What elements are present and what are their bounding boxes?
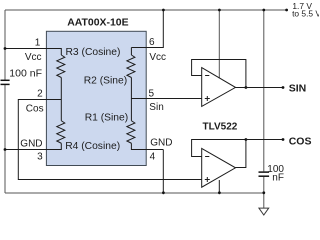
wire R1 bottom to pin 4 — [131, 143, 163, 149]
wire right rail lower segment to ground — [263, 177, 265, 208]
svg-text:R3 (Cosine): R3 (Cosine) — [66, 47, 121, 58]
svg-text:100 nF: 100 nF — [9, 68, 42, 80]
svg-text:1: 1 — [35, 37, 41, 48]
node COS terminal — [282, 138, 285, 141]
op-amp U2 triangle — [202, 148, 236, 187]
wire R4 bottom to pin 3 and GND rail — [5, 143, 61, 149]
svg-text:Cos: Cos — [26, 103, 44, 114]
svg-text:COS: COS — [289, 135, 312, 147]
ground symbol — [259, 208, 269, 215]
svg-text:GND: GND — [20, 138, 42, 149]
node right rail / bottom rail junction — [262, 191, 265, 194]
resistor R2 — [127, 55, 135, 77]
wire pin 1 Vcc — [5, 49, 61, 56]
svg-text:Sin: Sin — [149, 102, 163, 113]
wire right column between R2 and R1 — [130, 78, 132, 121]
svg-text:TLV522: TLV522 — [203, 121, 238, 132]
op-amp U2 minus sign — [205, 156, 209, 158]
resistor R3 — [57, 55, 65, 77]
svg-text:R1 (Sine): R1 (Sine) — [85, 112, 129, 123]
wire U2 output to COS terminal — [246, 139, 283, 141]
svg-text:GND: GND — [150, 137, 172, 148]
svg-text:Vcc: Vcc — [149, 52, 166, 63]
resistor R1 — [127, 121, 135, 144]
wire GND bottom rail — [5, 192, 264, 194]
node pin 1 / left rail junction — [4, 47, 7, 50]
wire op-amp U1 positive supply stub — [218, 10, 220, 78]
wire U1 output to SIN terminal — [236, 87, 284, 89]
wire op-amp U2 negative supply stub — [218, 180, 220, 193]
svg-text:SIN: SIN — [289, 82, 307, 94]
wire pin 5 Sin to op-amp U1 plus input — [131, 98, 201, 100]
svg-text:3: 3 — [37, 152, 43, 163]
node SIN terminal — [282, 86, 285, 89]
wire U1 feedback loop — [192, 60, 246, 88]
node pin 6 / top rail junction — [162, 9, 165, 12]
wire Vcc right rail upper segment — [263, 10, 265, 171]
svg-text:4: 4 — [150, 151, 156, 162]
node U1 supply stub / top rail junction — [218, 9, 221, 12]
wire right column top — [130, 48, 132, 56]
wire U2 feedback loop — [192, 140, 246, 168]
svg-text:to 5.5 V: to 5.5 V — [292, 8, 319, 18]
op-amp U1 plus sign — [205, 96, 210, 101]
op-amp U2 plus sign — [205, 177, 210, 182]
svg-text:6: 6 — [149, 37, 155, 48]
op-amp U1 minus sign — [205, 75, 209, 77]
wire left column between R3 and R4 — [60, 78, 62, 121]
node supply voltage terminal — [285, 9, 288, 12]
capacitor C1 100 nF plates — [1, 79, 10, 81]
svg-text:R2 (Sine): R2 (Sine) — [84, 75, 128, 86]
node U1 output feedback junction — [245, 86, 248, 89]
op-amp U1 triangle — [202, 68, 236, 107]
svg-text:5: 5 — [149, 89, 155, 100]
node U2 output feedback junction — [245, 138, 248, 141]
svg-text:AAT00X-10E: AAT00X-10E — [67, 17, 128, 28]
svg-text:R4 (Cosine): R4 (Cosine) — [65, 141, 120, 152]
node right rail / top rail junction — [262, 9, 265, 12]
node pin 4 / bottom rail junction — [162, 191, 165, 194]
svg-text:nF: nF — [272, 173, 284, 184]
wire pin 2 Cos to op-amp U2 plus input — [18, 100, 201, 180]
chip AAT00X-10E body — [46, 31, 146, 165]
wire GND left rail lower segment — [4, 85, 6, 193]
capacitor C2 100 nF plates — [259, 171, 270, 173]
node pin 3 / left rail junction — [4, 148, 7, 151]
wire Vcc top rail — [5, 9, 287, 11]
wire pin 4 GND to bottom rail — [162, 150, 164, 194]
wire Vcc left rail upper segment — [4, 10, 6, 80]
node U2 supply stub / bottom rail junction — [218, 191, 221, 194]
resistor R4 — [57, 121, 65, 144]
svg-text:Vcc: Vcc — [25, 52, 42, 63]
svg-text:2: 2 — [37, 89, 43, 100]
wire pin 6 Vcc to top rail — [131, 10, 163, 48]
